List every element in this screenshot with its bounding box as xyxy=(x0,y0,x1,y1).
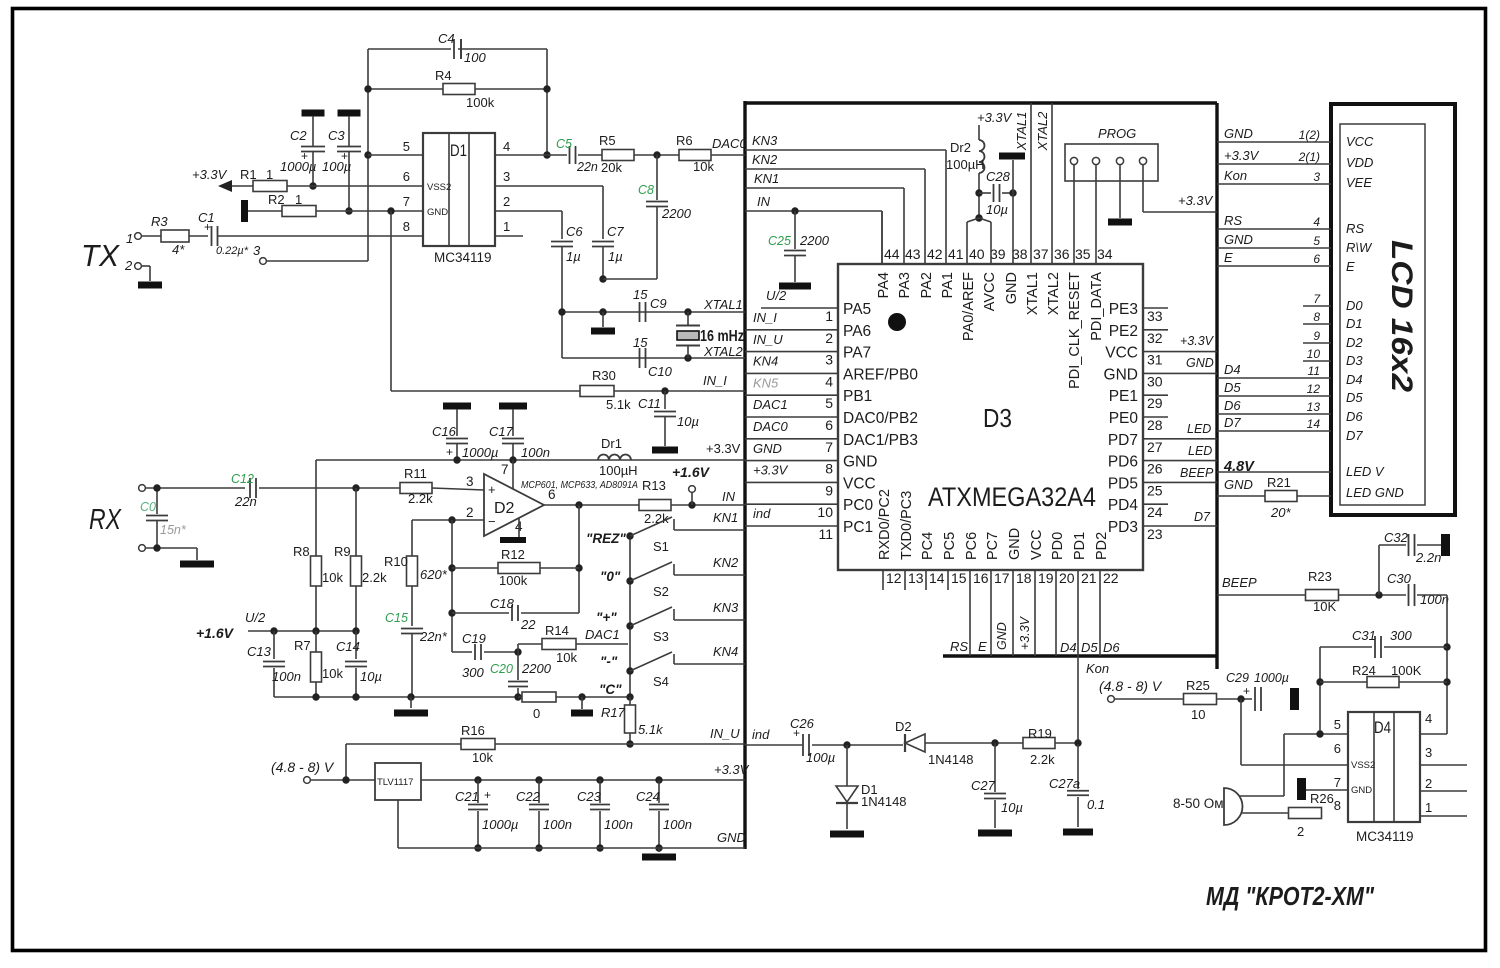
svg-text:20k: 20k xyxy=(601,160,622,175)
svg-text:R23: R23 xyxy=(1308,569,1332,584)
svg-text:C29: C29 xyxy=(1226,671,1249,685)
svg-text:GND: GND xyxy=(1004,272,1020,304)
svg-text:PE2: PE2 xyxy=(1109,323,1138,340)
svg-text:PB1: PB1 xyxy=(843,388,872,405)
svg-text:GND: GND xyxy=(717,830,746,845)
svg-text:+1.6V: +1.6V xyxy=(672,464,711,480)
svg-text:PA7: PA7 xyxy=(843,345,871,362)
svg-text:VCC: VCC xyxy=(1346,134,1374,149)
svg-text:GND: GND xyxy=(427,207,448,218)
svg-text:28: 28 xyxy=(1147,417,1163,433)
svg-text:7: 7 xyxy=(825,439,833,455)
svg-text:C20: C20 xyxy=(490,662,513,676)
svg-text:KN1: KN1 xyxy=(713,510,738,525)
svg-text:100n: 100n xyxy=(543,817,572,832)
svg-text:R19: R19 xyxy=(1028,726,1052,741)
svg-text:VSS2: VSS2 xyxy=(427,182,451,193)
svg-text:TX: TX xyxy=(81,238,120,273)
svg-text:R9: R9 xyxy=(334,544,351,559)
svg-text:6: 6 xyxy=(403,169,410,184)
svg-text:D2: D2 xyxy=(1346,335,1363,350)
svg-text:MCP601, MCP633, AD8091A: MCP601, MCP633, AD8091A xyxy=(521,480,638,491)
svg-text:+: + xyxy=(341,149,348,163)
svg-text:C10: C10 xyxy=(648,364,673,379)
svg-text:ind: ind xyxy=(753,506,771,521)
svg-text:PD3: PD3 xyxy=(1108,519,1138,536)
svg-text:R1: R1 xyxy=(240,167,257,182)
svg-text:XTAL1: XTAL1 xyxy=(703,297,743,312)
svg-text:1: 1 xyxy=(825,308,833,324)
svg-text:18: 18 xyxy=(1016,570,1032,586)
svg-text:22: 22 xyxy=(1103,570,1119,586)
svg-text:100K: 100K xyxy=(1391,663,1422,678)
svg-text:PC6: PC6 xyxy=(964,532,980,560)
svg-text:4: 4 xyxy=(1313,215,1320,229)
svg-text:МД "КРОТ2-ХМ": МД "КРОТ2-ХМ" xyxy=(1206,881,1375,911)
svg-text:BEEP: BEEP xyxy=(1180,466,1214,480)
svg-text:R11: R11 xyxy=(404,466,427,481)
svg-text:IN_I: IN_I xyxy=(703,373,727,388)
svg-text:RS: RS xyxy=(1224,213,1242,228)
svg-text:RS: RS xyxy=(1346,221,1364,236)
svg-text:GND: GND xyxy=(753,441,782,456)
svg-text:2: 2 xyxy=(825,330,833,346)
svg-text:+: + xyxy=(301,149,308,163)
svg-text:36: 36 xyxy=(1054,246,1070,262)
svg-text:+: + xyxy=(1243,684,1250,698)
svg-text:PA4: PA4 xyxy=(876,272,892,298)
svg-text:R2: R2 xyxy=(268,192,285,207)
svg-text:LED GND: LED GND xyxy=(1346,485,1404,500)
svg-text:2: 2 xyxy=(1425,776,1432,791)
svg-text:10k: 10k xyxy=(472,750,493,765)
svg-text:10µ: 10µ xyxy=(360,669,382,684)
svg-text:10K: 10K xyxy=(1313,599,1336,614)
svg-text:26: 26 xyxy=(1147,461,1163,477)
svg-text:+3.3V: +3.3V xyxy=(1018,615,1032,650)
svg-text:PA1: PA1 xyxy=(940,272,956,298)
svg-text:8: 8 xyxy=(403,219,410,234)
svg-text:E: E xyxy=(1224,250,1233,265)
svg-text:44: 44 xyxy=(884,246,900,262)
svg-text:R7: R7 xyxy=(294,638,311,653)
svg-text:C6: C6 xyxy=(566,224,583,239)
svg-text:R5: R5 xyxy=(599,133,616,148)
svg-text:4: 4 xyxy=(825,373,833,389)
svg-text:14: 14 xyxy=(1307,417,1321,431)
svg-text:S3: S3 xyxy=(653,629,669,644)
svg-text:1: 1 xyxy=(295,192,302,207)
svg-text:100n: 100n xyxy=(604,817,633,832)
svg-text:S1: S1 xyxy=(653,539,669,554)
svg-text:R14: R14 xyxy=(545,623,569,638)
svg-text:+3.3V: +3.3V xyxy=(753,463,789,478)
svg-text:C27: C27 xyxy=(971,778,996,793)
svg-text:3: 3 xyxy=(1425,745,1432,760)
svg-text:PC4: PC4 xyxy=(920,532,936,560)
svg-text:GND: GND xyxy=(1224,232,1253,247)
svg-text:22n: 22n xyxy=(576,160,598,174)
svg-text:8: 8 xyxy=(825,461,833,477)
svg-text:XTAL1: XTAL1 xyxy=(1014,112,1029,152)
svg-text:GND: GND xyxy=(1007,528,1023,560)
svg-text:D5: D5 xyxy=(1224,380,1241,395)
svg-text:GND: GND xyxy=(1186,356,1214,370)
svg-text:"REZ": "REZ" xyxy=(586,531,626,546)
svg-text:(4.8 - 8) V: (4.8 - 8) V xyxy=(271,759,335,775)
svg-text:+3.3V: +3.3V xyxy=(706,441,741,456)
svg-text:PD1: PD1 xyxy=(1072,532,1088,560)
svg-text:R3: R3 xyxy=(151,214,168,229)
svg-text:IN_U: IN_U xyxy=(710,726,740,741)
svg-text:"0": "0" xyxy=(600,569,621,584)
svg-text:22: 22 xyxy=(520,617,536,632)
svg-text:R16: R16 xyxy=(461,723,485,738)
svg-text:C7: C7 xyxy=(607,224,624,239)
svg-text:C2: C2 xyxy=(290,128,307,143)
svg-text:PD4: PD4 xyxy=(1108,497,1139,514)
svg-text:3: 3 xyxy=(503,169,510,184)
svg-text:KN3: KN3 xyxy=(752,133,778,148)
svg-text:R6: R6 xyxy=(676,133,693,148)
svg-text:C32: C32 xyxy=(1384,530,1409,545)
svg-text:3: 3 xyxy=(253,243,261,258)
svg-text:16 mHz: 16 mHz xyxy=(700,328,744,345)
svg-text:+3.3V: +3.3V xyxy=(977,110,1013,125)
svg-text:LCD 16x2: LCD 16x2 xyxy=(1385,240,1418,392)
svg-text:PA2: PA2 xyxy=(919,272,935,298)
svg-text:AREF/PB0: AREF/PB0 xyxy=(843,366,918,383)
svg-text:RXD0/PC2: RXD0/PC2 xyxy=(877,489,893,560)
svg-text:IN: IN xyxy=(722,489,736,504)
svg-text:1: 1 xyxy=(1425,800,1432,815)
svg-text:+3.3V: +3.3V xyxy=(1180,334,1215,348)
svg-text:R\W: R\W xyxy=(1346,240,1373,255)
svg-text:5: 5 xyxy=(825,395,833,411)
svg-text:(4.8 - 8) V: (4.8 - 8) V xyxy=(1099,678,1163,694)
svg-text:100n: 100n xyxy=(521,445,550,460)
svg-text:GND: GND xyxy=(843,454,877,471)
svg-text:GND: GND xyxy=(995,622,1009,650)
svg-text:+3.3V: +3.3V xyxy=(1178,193,1214,208)
svg-text:D1: D1 xyxy=(450,141,467,160)
svg-text:IN: IN xyxy=(757,194,771,209)
svg-text:32: 32 xyxy=(1147,330,1163,346)
svg-text:PE1: PE1 xyxy=(1109,388,1138,405)
svg-text:VSS2: VSS2 xyxy=(1351,760,1375,771)
svg-text:C27a: C27a xyxy=(1049,776,1080,791)
svg-text:34: 34 xyxy=(1097,246,1113,262)
svg-text:10µ: 10µ xyxy=(986,202,1008,217)
svg-text:R21: R21 xyxy=(1267,475,1291,490)
svg-text:PC7: PC7 xyxy=(985,532,1001,560)
svg-text:C11: C11 xyxy=(638,396,661,411)
svg-text:XTAL2: XTAL2 xyxy=(703,344,744,359)
svg-text:GND: GND xyxy=(1224,477,1253,492)
svg-text:19: 19 xyxy=(1038,570,1054,586)
svg-text:R8: R8 xyxy=(293,544,310,559)
svg-text:Dr2: Dr2 xyxy=(950,140,971,155)
svg-text:2.2k: 2.2k xyxy=(362,570,387,585)
svg-text:AVCC: AVCC xyxy=(982,272,998,311)
svg-text:D7: D7 xyxy=(1194,510,1211,524)
svg-text:29: 29 xyxy=(1147,395,1163,411)
svg-text:42: 42 xyxy=(927,246,943,262)
svg-text:6: 6 xyxy=(1334,741,1341,756)
svg-text:3: 3 xyxy=(825,352,833,368)
svg-text:VDD: VDD xyxy=(1346,155,1373,170)
svg-text:TLV1117: TLV1117 xyxy=(377,777,413,788)
svg-text:LED: LED xyxy=(1188,444,1212,458)
svg-text:100n: 100n xyxy=(663,817,692,832)
svg-text:100µH: 100µH xyxy=(946,157,985,172)
svg-text:D4: D4 xyxy=(1346,372,1363,387)
svg-text:C14: C14 xyxy=(336,639,360,654)
svg-text:300: 300 xyxy=(462,665,484,680)
svg-text:C15: C15 xyxy=(385,611,408,625)
svg-text:DAC0: DAC0 xyxy=(712,136,747,151)
svg-text:LED V: LED V xyxy=(1346,464,1385,479)
svg-text:7: 7 xyxy=(1334,775,1341,790)
svg-text:38: 38 xyxy=(1012,246,1028,262)
svg-text:2: 2 xyxy=(503,194,510,209)
svg-text:300: 300 xyxy=(1390,628,1412,643)
svg-text:10k: 10k xyxy=(322,570,343,585)
svg-text:KN4: KN4 xyxy=(753,354,778,369)
svg-text:D4: D4 xyxy=(1374,718,1391,737)
svg-text:6: 6 xyxy=(1313,252,1320,266)
svg-text:12: 12 xyxy=(1307,382,1321,396)
svg-text:VCC: VCC xyxy=(1105,345,1138,362)
svg-text:DAC1: DAC1 xyxy=(753,397,788,412)
svg-text:C30: C30 xyxy=(1387,571,1412,586)
svg-text:LED: LED xyxy=(1187,422,1211,436)
svg-text:100k: 100k xyxy=(499,573,528,588)
svg-text:+: + xyxy=(484,788,491,802)
svg-text:10µ: 10µ xyxy=(1001,800,1023,815)
svg-text:Dr1: Dr1 xyxy=(601,436,622,451)
svg-text:1000µ: 1000µ xyxy=(482,817,518,832)
svg-text:23: 23 xyxy=(1147,526,1163,542)
svg-text:R30: R30 xyxy=(592,368,616,383)
svg-text:D5: D5 xyxy=(1081,640,1098,655)
svg-text:14: 14 xyxy=(929,570,945,586)
svg-text:31: 31 xyxy=(1147,352,1163,368)
svg-text:MC34119: MC34119 xyxy=(434,250,492,265)
svg-text:2: 2 xyxy=(124,258,133,273)
svg-text:0.1: 0.1 xyxy=(1087,797,1105,812)
svg-text:GND: GND xyxy=(1104,366,1138,383)
svg-text:PC1: PC1 xyxy=(843,519,873,536)
svg-text:MC34119: MC34119 xyxy=(1356,829,1414,844)
svg-text:R13: R13 xyxy=(642,478,666,493)
svg-text:13: 13 xyxy=(1307,400,1321,414)
svg-text:XTAL2: XTAL2 xyxy=(1035,111,1050,152)
svg-text:D5: D5 xyxy=(1346,390,1363,405)
svg-text:2200: 2200 xyxy=(799,233,830,248)
svg-text:1000µ: 1000µ xyxy=(462,445,498,460)
svg-text:16: 16 xyxy=(973,570,989,586)
svg-text:22n: 22n xyxy=(234,494,257,509)
svg-text:TXD0/PC3: TXD0/PC3 xyxy=(899,491,915,560)
svg-text:IN_U: IN_U xyxy=(753,332,783,347)
svg-text:"+": "+" xyxy=(596,610,617,625)
svg-text:DAC0/PB2: DAC0/PB2 xyxy=(843,410,918,427)
svg-text:+: + xyxy=(446,445,453,459)
svg-text:XTAL1: XTAL1 xyxy=(1025,272,1041,315)
svg-text:12: 12 xyxy=(886,570,902,586)
svg-text:D2: D2 xyxy=(494,500,515,517)
svg-text:C0: C0 xyxy=(140,500,156,514)
svg-text:KN3: KN3 xyxy=(713,600,739,615)
svg-text:1µ: 1µ xyxy=(608,249,623,264)
svg-text:2: 2 xyxy=(466,505,474,520)
svg-text:15: 15 xyxy=(633,335,648,350)
svg-text:C8: C8 xyxy=(638,183,654,197)
svg-text:D4: D4 xyxy=(1224,362,1241,377)
svg-text:2200: 2200 xyxy=(661,206,692,221)
svg-text:C28: C28 xyxy=(986,169,1011,184)
svg-text:PD7: PD7 xyxy=(1108,432,1138,449)
svg-text:VCC: VCC xyxy=(1029,529,1045,560)
svg-text:7: 7 xyxy=(403,194,410,209)
svg-text:PC0: PC0 xyxy=(843,497,874,514)
svg-text:1000µ: 1000µ xyxy=(280,159,316,174)
svg-text:2: 2 xyxy=(1297,824,1304,839)
svg-text:D4: D4 xyxy=(1060,640,1077,655)
svg-text:5.1k: 5.1k xyxy=(606,397,631,412)
svg-text:"C": "C" xyxy=(599,682,622,697)
svg-text:10k: 10k xyxy=(693,159,714,174)
svg-text:43: 43 xyxy=(905,246,921,262)
svg-text:3: 3 xyxy=(1313,170,1320,184)
svg-text:U/2: U/2 xyxy=(245,610,266,625)
svg-text:2(1): 2(1) xyxy=(1298,150,1320,164)
svg-text:D3: D3 xyxy=(1346,353,1363,368)
svg-text:D1: D1 xyxy=(1346,316,1363,331)
svg-text:10: 10 xyxy=(817,504,833,520)
svg-text:C21: C21 xyxy=(455,789,479,804)
svg-text:ind: ind xyxy=(752,727,770,742)
svg-text:IN_I: IN_I xyxy=(753,310,777,325)
svg-text:27: 27 xyxy=(1147,439,1163,455)
svg-text:11: 11 xyxy=(1308,364,1320,378)
svg-text:BEEP: BEEP xyxy=(1222,575,1257,590)
svg-text:C13: C13 xyxy=(247,644,272,659)
svg-text:13: 13 xyxy=(908,570,924,586)
svg-text:PD0: PD0 xyxy=(1050,532,1066,560)
svg-text:100: 100 xyxy=(464,50,486,65)
svg-text:8: 8 xyxy=(1313,310,1320,324)
svg-text:10µ: 10µ xyxy=(677,414,699,429)
svg-text:+: + xyxy=(488,482,496,497)
svg-text:R26: R26 xyxy=(1310,791,1334,806)
svg-text:S2: S2 xyxy=(653,584,669,599)
svg-text:2200: 2200 xyxy=(521,661,552,676)
svg-text:30: 30 xyxy=(1147,373,1163,389)
svg-text:1: 1 xyxy=(503,219,510,234)
svg-text:D7: D7 xyxy=(1346,428,1363,443)
svg-text:8: 8 xyxy=(1334,798,1341,813)
svg-text:E: E xyxy=(1346,259,1355,274)
svg-text:10: 10 xyxy=(1307,347,1321,361)
svg-text:RS: RS xyxy=(950,639,968,654)
svg-text:5: 5 xyxy=(1334,717,1341,732)
svg-text:DAC1: DAC1 xyxy=(585,627,620,642)
svg-text:"-": "-" xyxy=(600,654,618,669)
svg-text:C16: C16 xyxy=(432,424,457,439)
svg-text:1µ: 1µ xyxy=(566,249,581,264)
svg-text:U/2: U/2 xyxy=(766,288,787,303)
svg-text:20*: 20* xyxy=(1270,505,1291,520)
svg-text:PD6: PD6 xyxy=(1108,454,1138,471)
svg-text:9: 9 xyxy=(825,482,833,498)
svg-text:1N4148: 1N4148 xyxy=(928,752,974,767)
svg-text:35: 35 xyxy=(1075,246,1091,262)
svg-text:C22: C22 xyxy=(516,789,541,804)
svg-text:Kon: Kon xyxy=(1086,661,1109,676)
svg-text:C12: C12 xyxy=(231,472,254,486)
svg-text:R4: R4 xyxy=(435,68,452,83)
svg-text:17: 17 xyxy=(994,570,1010,586)
svg-text:41: 41 xyxy=(948,246,964,262)
svg-text:D0: D0 xyxy=(1346,298,1363,313)
svg-text:C31: C31 xyxy=(1352,628,1376,643)
svg-text:XTAL2: XTAL2 xyxy=(1046,272,1062,315)
svg-text:R10: R10 xyxy=(384,554,408,569)
svg-text:37: 37 xyxy=(1033,246,1049,262)
svg-text:1(2): 1(2) xyxy=(1299,128,1320,142)
svg-text:PA0/AREF: PA0/AREF xyxy=(961,272,977,341)
svg-text:C23: C23 xyxy=(577,789,602,804)
svg-text:C5: C5 xyxy=(556,137,572,151)
svg-text:PA6: PA6 xyxy=(843,323,871,340)
svg-text:C18: C18 xyxy=(490,596,515,611)
svg-text:DAC0: DAC0 xyxy=(753,419,788,434)
svg-text:15: 15 xyxy=(633,287,648,302)
svg-text:8-50 Ом: 8-50 Ом xyxy=(1173,796,1224,811)
svg-text:DAC1/PB3: DAC1/PB3 xyxy=(843,432,918,449)
svg-text:4*: 4* xyxy=(172,242,185,257)
svg-text:40: 40 xyxy=(969,246,985,262)
svg-text:+3.3V: +3.3V xyxy=(1224,148,1260,163)
svg-text:E: E xyxy=(978,639,987,654)
svg-text:21: 21 xyxy=(1081,570,1097,586)
svg-text:0.22µ*: 0.22µ* xyxy=(216,245,249,257)
svg-text:1: 1 xyxy=(126,231,133,246)
svg-text:+1.6V: +1.6V xyxy=(196,625,235,641)
svg-text:11: 11 xyxy=(818,526,833,542)
svg-text:100n: 100n xyxy=(272,669,301,684)
svg-text:D6: D6 xyxy=(1224,398,1241,413)
svg-text:GND: GND xyxy=(1224,126,1253,141)
svg-text:Kon: Kon xyxy=(1224,168,1247,183)
svg-text:2.2k: 2.2k xyxy=(408,491,433,506)
svg-text:KN2: KN2 xyxy=(752,152,778,167)
svg-text:R12: R12 xyxy=(501,547,525,562)
svg-text:100µ: 100µ xyxy=(806,750,835,765)
svg-text:9: 9 xyxy=(1313,329,1320,343)
svg-text:+: + xyxy=(793,726,800,740)
svg-text:R25: R25 xyxy=(1186,678,1210,693)
svg-text:0: 0 xyxy=(533,706,540,721)
svg-text:C4: C4 xyxy=(438,31,455,46)
svg-text:5: 5 xyxy=(1313,234,1320,248)
svg-text:2.2k: 2.2k xyxy=(1030,752,1055,767)
svg-text:C19: C19 xyxy=(462,631,486,646)
svg-text:ATXMEGA32A4: ATXMEGA32A4 xyxy=(928,482,1096,512)
svg-text:39: 39 xyxy=(990,246,1006,262)
